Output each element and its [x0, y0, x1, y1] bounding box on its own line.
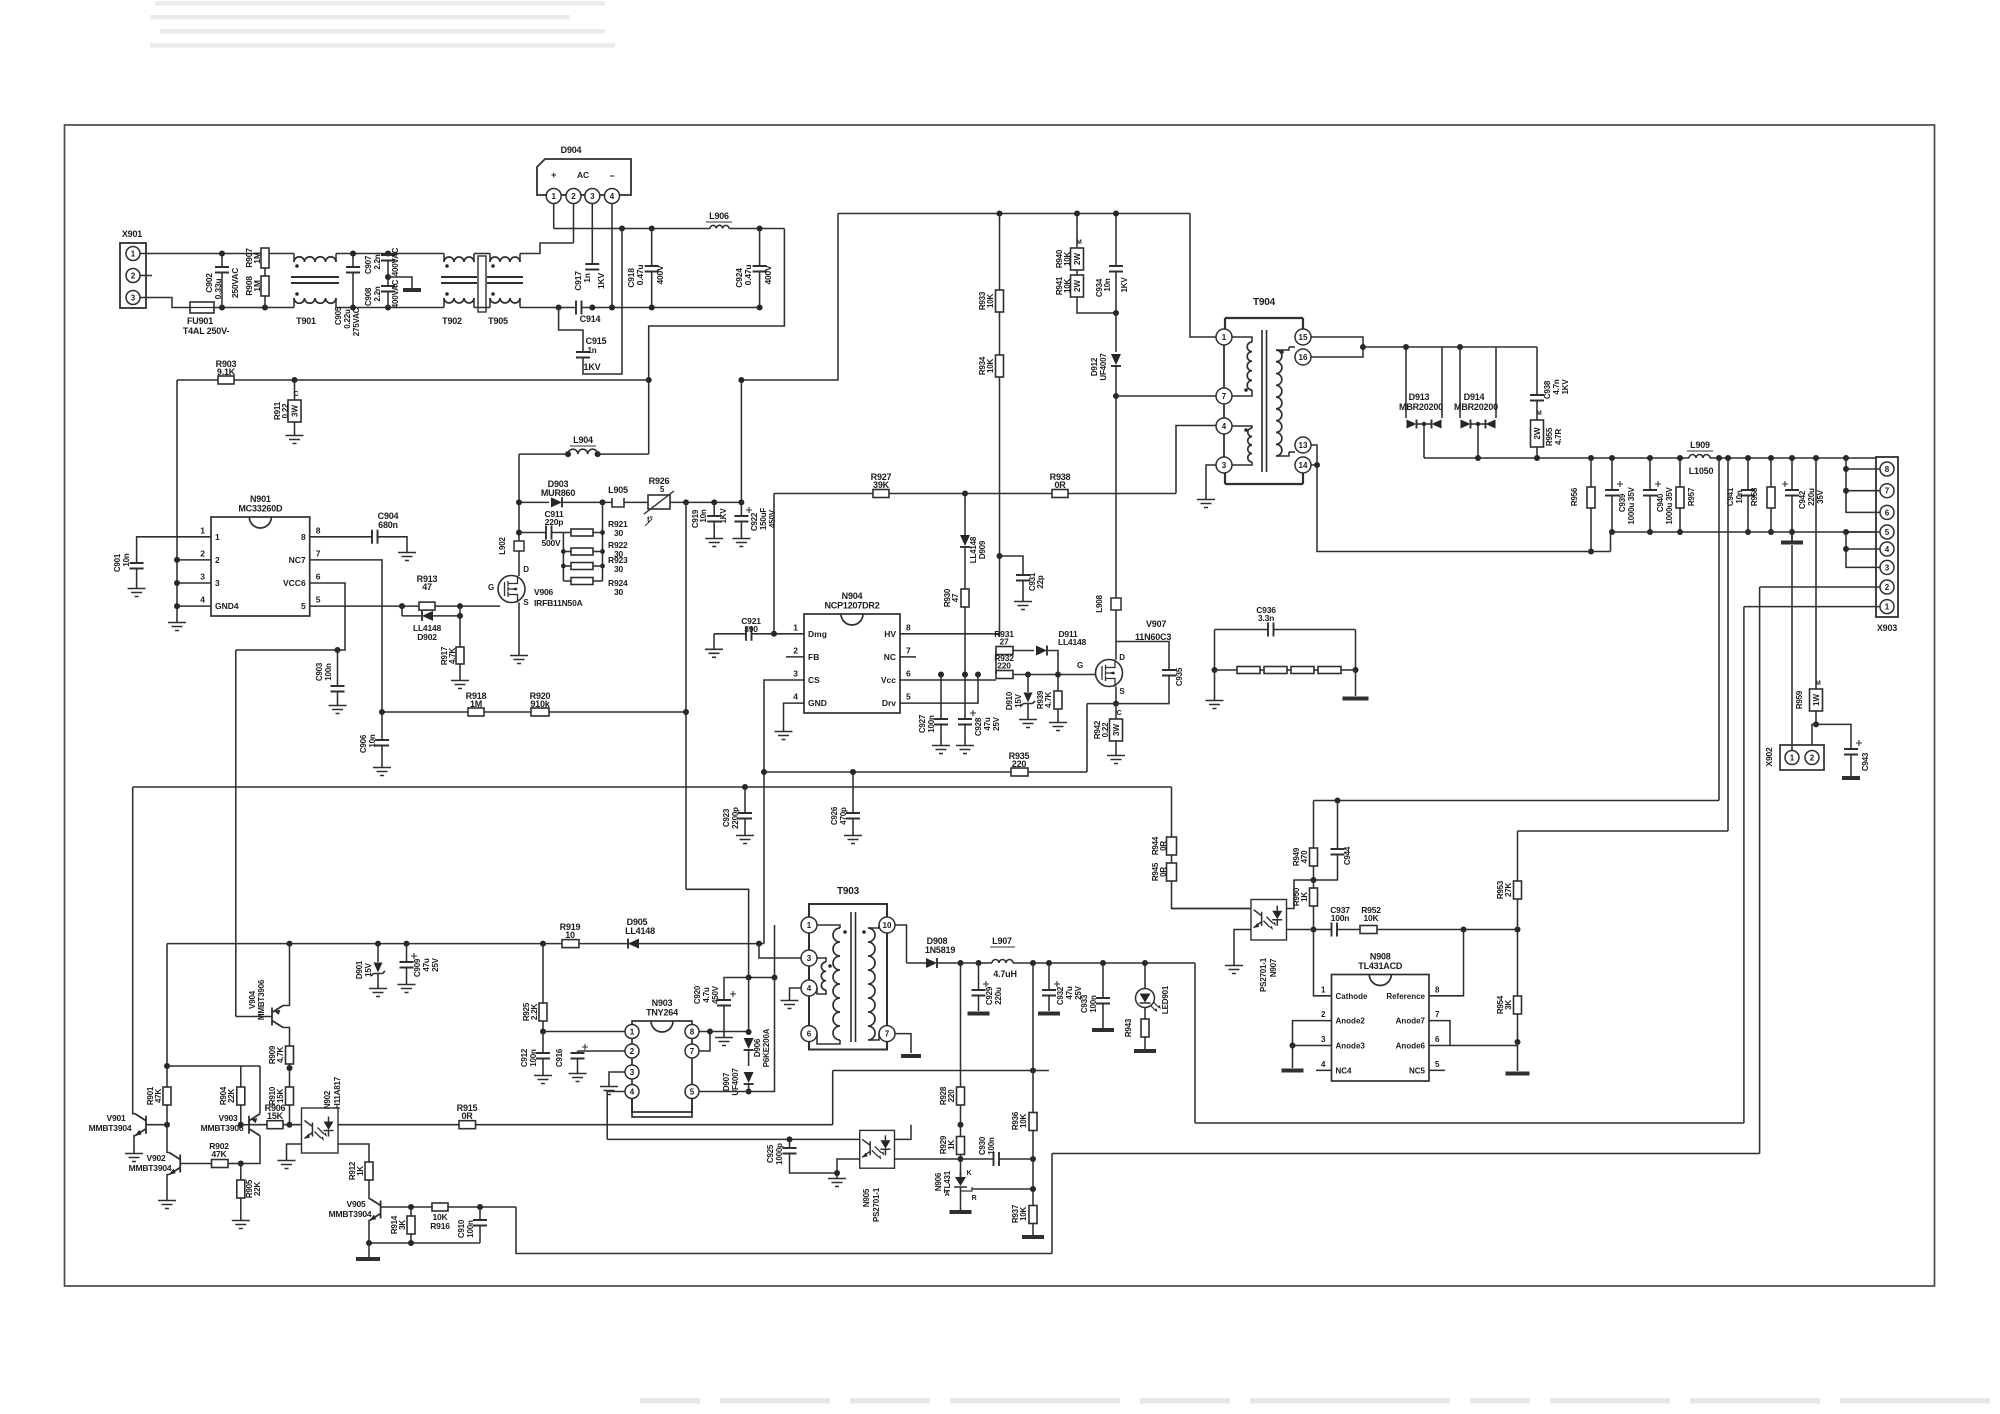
svg-text:MC33260D: MC33260D: [238, 504, 283, 514]
wire R911 bottom lead: [294, 422, 296, 432]
wire C931 tap: [1000, 556, 1024, 575]
ground C926: [844, 832, 862, 844]
capacitor C925: [783, 1148, 797, 1154]
junction HV node: [683, 499, 689, 505]
svg-text:MMBT3906: MMBT3906: [257, 979, 266, 1020]
junction C925 ground: [834, 1170, 840, 1176]
wire C944 top: [1337, 801, 1339, 850]
resistor R926 thermistor: [648, 495, 670, 509]
X903 pin 4: [1880, 542, 1894, 556]
X901 pin 1: [126, 247, 140, 261]
wire D903 to L905: [563, 501, 612, 503]
svg-text:220p: 220p: [545, 517, 564, 527]
wire: [293, 298, 295, 308]
wire R907-R908: [264, 268, 266, 276]
capacitor C915: [576, 352, 590, 358]
wire: [474, 307, 490, 309]
wire CS riser right: [1086, 704, 1088, 772]
junction C924 top: [757, 226, 763, 232]
wire C940 bottom: [1649, 496, 1651, 533]
transformer T903 primary winding: [833, 928, 840, 1040]
wire: [519, 254, 521, 263]
wire T904 sec bottom tap: [1276, 452, 1289, 456]
resistor R922: [571, 548, 593, 555]
resistor R916: [432, 1203, 448, 1211]
wire R904 top: [240, 1066, 242, 1087]
junction: [408, 1240, 414, 1246]
svg-text:D901: D901: [355, 960, 364, 979]
X903 pin 8: [1880, 462, 1894, 476]
junction damper left: [1212, 667, 1218, 673]
border frame: [65, 125, 1935, 1286]
resistor damper 1: [1237, 667, 1260, 674]
fuse FU901: [190, 302, 214, 313]
svg-text:1W: 1W: [1812, 694, 1821, 706]
wire: [593, 551, 603, 553]
ground damper left: [1206, 697, 1224, 709]
wire N905 to line: [895, 1125, 912, 1140]
svg-text:6: 6: [316, 572, 321, 582]
svg-text:M: M: [1815, 680, 1820, 687]
resistor R936: [1029, 1113, 1037, 1131]
capacitor C918: [645, 266, 659, 272]
svg-text:R943: R943: [1124, 1018, 1133, 1037]
junction drain node: [746, 1089, 752, 1095]
svg-text:4.7R: 4.7R: [1554, 429, 1563, 446]
capacitor C930: [994, 1152, 1000, 1166]
wire R954 top: [1517, 930, 1519, 997]
svg-text:C930: C930: [978, 1136, 987, 1155]
junction D906 top: [746, 1029, 752, 1035]
wire R905 bottom: [240, 1198, 242, 1217]
capacitor C909: [400, 962, 414, 968]
wire bulk plus staircase: [649, 229, 785, 455]
wire C921 ground leg: [713, 634, 715, 646]
wire C938 top: [1536, 347, 1538, 395]
wire V903 collector down: [241, 1136, 260, 1164]
wire gate line to V906: [435, 605, 500, 607]
svg-text:C910: C910: [457, 1219, 466, 1238]
junction: [1725, 455, 1731, 461]
svg-text:HV: HV: [884, 629, 896, 639]
wire L904 line left: [519, 453, 568, 455]
svg-text:Reference: Reference: [1386, 992, 1425, 1001]
capacitor C941: [1741, 490, 1755, 496]
svg-text:GND4: GND4: [215, 601, 239, 611]
wire C931 bottom: [1022, 581, 1024, 599]
svg-text:4: 4: [630, 1087, 635, 1096]
wire V903 base link: [241, 1124, 249, 1126]
wire NC5 stub: [1429, 1069, 1445, 1071]
junction: [609, 305, 615, 311]
transformer T903 box: [809, 904, 887, 1050]
svg-text:680n: 680n: [378, 520, 398, 530]
wire C921 left: [714, 633, 746, 635]
svg-text:R957: R957: [1687, 487, 1696, 506]
junction C928: [962, 672, 968, 678]
wire D906-D907: [748, 1050, 750, 1066]
svg-text:5: 5: [906, 692, 911, 702]
svg-text:47: 47: [951, 593, 960, 602]
svg-text:H11A817: H11A817: [333, 1076, 342, 1109]
svg-text:2.2K: 2.2K: [530, 1004, 539, 1021]
wire T903 aux top: [817, 958, 826, 962]
wire R928 riser: [960, 963, 962, 1087]
svg-text:R916: R916: [430, 1221, 450, 1231]
wire: [563, 532, 571, 534]
resistor R928: [957, 1087, 965, 1105]
wire C903 top: [337, 650, 339, 686]
wire R949 bottom: [1313, 866, 1315, 880]
resistor R957: [1676, 487, 1684, 508]
svg-text:27: 27: [999, 637, 1009, 647]
T904 winding dot: [1244, 428, 1248, 432]
wire to T904 pin7: [1116, 395, 1216, 397]
wire: [1287, 669, 1291, 671]
wire R931 left riser: [995, 651, 997, 675]
wire secondary top line: [1363, 346, 1537, 348]
svg-text:1: 1: [1790, 753, 1795, 762]
ground C921: [705, 646, 723, 658]
svg-text:0.22: 0.22: [1101, 722, 1110, 738]
wire R944-R945: [1171, 855, 1173, 863]
junction D913 center: [1422, 422, 1426, 426]
svg-text:C927: C927: [918, 714, 927, 733]
wire reference to FB node: [1429, 930, 1464, 996]
wire N906 to ground: [960, 1196, 962, 1210]
wire startup riser x177: [176, 380, 178, 619]
wire pin8 node to D906 chain: [710, 1031, 749, 1033]
svg-text:1KV: 1KV: [719, 508, 728, 524]
svg-text:14: 14: [1299, 461, 1308, 470]
N903 pin 3: [625, 1065, 639, 1079]
svg-text:10K: 10K: [986, 359, 995, 373]
wire C921 to pin1: [752, 633, 805, 635]
wire N903 pin4-5 loop: [632, 1099, 692, 1113]
wire C933 bottom: [1102, 1004, 1104, 1029]
wire C906 bottom: [381, 746, 383, 765]
svg-text:C903: C903: [315, 662, 324, 681]
wire R958 top: [1770, 458, 1772, 487]
wire damper right leg: [1355, 630, 1357, 671]
svg-text:C943: C943: [1861, 752, 1870, 771]
svg-text:C920: C920: [693, 985, 702, 1004]
wire V905 collector to R912: [368, 1180, 371, 1199]
wire N901 pin2 stub: [177, 559, 211, 561]
junction C903 tap: [335, 647, 341, 653]
svg-text:V901: V901: [106, 1113, 126, 1123]
svg-text:4: 4: [1222, 422, 1227, 431]
svg-text:2.2n: 2.2n: [373, 254, 382, 270]
resistor R930: [961, 589, 969, 607]
ground R942: [1107, 752, 1125, 764]
wire D904 pin2 down: [573, 204, 575, 244]
resistor R924: [571, 578, 593, 585]
svg-text:D: D: [523, 565, 529, 574]
junction C909: [404, 941, 410, 947]
ground N905: [828, 1175, 846, 1187]
wire C934 top: [1115, 214, 1117, 267]
svg-text:V903: V903: [218, 1113, 238, 1123]
svg-text:4: 4: [1321, 1060, 1326, 1069]
wire R933-R934: [999, 312, 1001, 355]
wire lower rail: [375, 307, 444, 309]
capacitor C944: [1331, 849, 1345, 855]
svg-text:Cathode: Cathode: [1336, 992, 1369, 1001]
junction: [350, 305, 356, 311]
svg-text:C923: C923: [722, 808, 731, 827]
N903 pin 1: [625, 1025, 639, 1039]
wire feedback line y712: [382, 711, 686, 713]
ground C903: [329, 702, 347, 714]
wire X903 pin4 ground: [1846, 548, 1880, 550]
wire T903 sec top: [868, 925, 879, 928]
svg-text:0.47u: 0.47u: [635, 265, 645, 286]
svg-text:LED901: LED901: [1161, 985, 1170, 1014]
wire C901 bottom: [136, 569, 138, 586]
T904 pin 14: [1295, 457, 1311, 473]
svg-text:C932: C932: [1056, 986, 1065, 1005]
svg-text:7: 7: [1435, 1010, 1440, 1019]
svg-text:39K: 39K: [873, 480, 890, 490]
wire R936 riser: [1032, 963, 1034, 1113]
wire: [907, 962, 927, 964]
svg-text:D906: D906: [753, 1038, 762, 1057]
svg-text:47K: 47K: [212, 1149, 228, 1159]
wire L905 to R926: [624, 501, 648, 503]
svg-text:8: 8: [301, 532, 306, 542]
svg-text:9.1K: 9.1K: [217, 367, 236, 377]
wire R941 bottom to C934 node: [1077, 297, 1116, 313]
svg-text:6: 6: [906, 669, 911, 679]
wire C925 bottom: [790, 1154, 838, 1174]
svg-text:Anode6: Anode6: [1396, 1042, 1426, 1051]
wire output rail: [1424, 457, 1689, 459]
wire T905 to bridge AC1: [520, 243, 574, 254]
svg-text:0.47u: 0.47u: [743, 265, 753, 286]
svg-text:PS2701-1: PS2701-1: [872, 1187, 881, 1222]
resistor R906: [267, 1121, 283, 1129]
wire T904 prim1 top: [1232, 337, 1252, 342]
wire T904 sec top tap: [1276, 347, 1289, 350]
svg-text:L902: L902: [498, 537, 507, 555]
svg-text:7: 7: [1222, 392, 1227, 401]
wire D909 top lead: [964, 494, 966, 536]
svg-text:3: 3: [590, 192, 595, 201]
wire CS sense line y772: [764, 771, 1087, 773]
resistor R942: [1110, 719, 1123, 741]
svg-text:N901: N901: [250, 494, 271, 504]
wire R928 bottom: [960, 1105, 962, 1125]
wire: [387, 254, 389, 256]
svg-text:T903: T903: [837, 886, 860, 897]
junction: [1843, 455, 1849, 461]
svg-text:MBR20200: MBR20200: [1399, 402, 1443, 412]
svg-text:10K: 10K: [1019, 1207, 1028, 1221]
svg-text:4: 4: [1885, 545, 1890, 554]
svg-text:2: 2: [200, 548, 205, 558]
svg-text:4.7K: 4.7K: [1044, 692, 1053, 709]
ground C931: [1014, 598, 1032, 610]
junction L904 right: [595, 451, 601, 457]
junction V904 chain: [287, 941, 293, 947]
wire: [1260, 669, 1264, 671]
wire R950 bottom: [1313, 906, 1315, 930]
resistor R954: [1514, 996, 1522, 1014]
resistor R917: [456, 647, 464, 664]
wire: [402, 615, 421, 617]
svg-text:470: 470: [1300, 850, 1309, 863]
capacitor C922: [734, 516, 748, 522]
T903 pin 3: [801, 950, 817, 966]
svg-text:100n: 100n: [466, 1220, 475, 1238]
transistor Q V907 MOSFET: [1096, 660, 1123, 687]
T904 pin 1: [1216, 329, 1232, 345]
ground C912: [534, 1072, 552, 1084]
svg-text:15: 15: [1299, 333, 1308, 342]
svg-text:2W: 2W: [1073, 253, 1082, 265]
wire D909 to R930: [964, 547, 966, 589]
resistor R943: [1141, 1019, 1149, 1037]
svg-text:1M: 1M: [252, 280, 262, 292]
ground R911: [286, 432, 304, 444]
wire N901 VCC6 line: [236, 583, 345, 650]
wire lower bus: [582, 307, 760, 309]
svg-text:−: −: [609, 171, 614, 181]
junction C910 top: [477, 1204, 483, 1210]
junction R936/R937: [1030, 1156, 1036, 1162]
junction C919: [711, 499, 717, 505]
junction R936 riser: [1030, 1068, 1036, 1074]
wire T903 prim bottom: [817, 1034, 840, 1044]
wire: [443, 298, 445, 308]
svg-text:6: 6: [1885, 508, 1890, 517]
resistor R956: [1587, 487, 1595, 508]
ground C904: [398, 549, 416, 561]
wire lower bus: [559, 307, 576, 309]
svg-text:0R: 0R: [1159, 867, 1168, 877]
junction: [219, 251, 225, 257]
svg-text:LL4148: LL4148: [1058, 637, 1087, 647]
svg-text:1N5819: 1N5819: [925, 945, 956, 955]
inductor L906: [710, 225, 729, 228]
junction C943: [1813, 721, 1819, 727]
resistor R912: [365, 1162, 373, 1180]
junction R907 top: [262, 251, 268, 257]
wire R925 top: [542, 944, 544, 1003]
wire ladder left rail: [562, 533, 564, 582]
ground N901: [168, 619, 186, 631]
junction: [589, 305, 595, 311]
svg-text:3K: 3K: [398, 1220, 407, 1230]
svg-text:0R: 0R: [1054, 480, 1066, 490]
capacitor C928: [958, 719, 972, 725]
svg-text:2: 2: [571, 192, 576, 201]
T905 winding dot: [491, 292, 495, 296]
wire N901 pin3 stub: [177, 582, 211, 584]
capacitor C933: [1096, 998, 1110, 1004]
wire T905 to lower bus: [520, 307, 559, 309]
svg-text:2W: 2W: [1533, 427, 1542, 439]
wire: [563, 580, 571, 582]
ground R939: [1049, 719, 1067, 731]
wire rail drop x1719: [1718, 458, 1720, 801]
wire to ground: [1517, 1042, 1519, 1071]
wire R942 bottom: [1115, 741, 1117, 752]
T904 pin 13: [1295, 437, 1311, 453]
resistor R949: [1310, 848, 1318, 866]
junction: [1789, 529, 1795, 535]
wire N903 pin3 stub: [609, 1072, 625, 1083]
svg-text:L1050: L1050: [1689, 466, 1714, 476]
svg-text:UF4007: UF4007: [1099, 353, 1108, 381]
wire aux staircase: [686, 889, 749, 1032]
wire damper right ground: [1355, 670, 1357, 696]
diode D908 1N5819: [926, 958, 937, 968]
wire N901 pin7 riser: [310, 560, 382, 712]
svg-text:100n: 100n: [927, 715, 936, 733]
resistor R935: [1011, 768, 1028, 776]
transformer T903 secondary winding: [868, 928, 875, 1040]
svg-text:450V: 450V: [768, 509, 777, 528]
svg-text:N903: N903: [652, 998, 673, 1008]
svg-text:0R: 0R: [461, 1111, 473, 1121]
junction R902/R905: [238, 1161, 244, 1167]
transformer T905 upper winding: [490, 257, 520, 262]
resistor R940: [1071, 248, 1084, 270]
inductor L907: [992, 960, 1013, 963]
wire V902 emitter: [167, 1175, 169, 1198]
svg-text:2: 2: [131, 271, 136, 280]
wire R916 to corner: [448, 1206, 516, 1208]
wire R909-R910: [289, 1064, 291, 1087]
svg-text:35V: 35V: [1816, 489, 1825, 503]
wire Dmg riser x774: [773, 494, 775, 634]
connector X903: [1876, 457, 1898, 617]
junction D903 anode: [516, 499, 522, 505]
wire C905 bottom: [352, 273, 354, 308]
svg-text:C938: C938: [1543, 380, 1552, 399]
ground V902: [158, 1197, 176, 1209]
resistor R934: [996, 355, 1004, 377]
svg-text:3: 3: [807, 954, 812, 963]
resistor R932: [996, 671, 1013, 679]
wire V906 drain lead: [518, 551, 520, 576]
svg-text:D: D: [1119, 653, 1125, 662]
svg-text:2200p: 2200p: [731, 807, 740, 829]
transformer T901 core: [291, 277, 339, 283]
wire C938 to R955: [1536, 401, 1538, 421]
svg-text:4.7K: 4.7K: [448, 648, 457, 665]
resistor R929: [957, 1137, 965, 1155]
svg-text:C912: C912: [520, 1048, 529, 1067]
junction reference: [1461, 927, 1467, 933]
resistor R921: [571, 529, 593, 536]
resistor damper 4: [1318, 667, 1341, 674]
wire lower rail: [265, 307, 294, 309]
junction C927: [938, 672, 944, 678]
junction D909 top: [962, 491, 968, 497]
junction D913: [1403, 344, 1409, 350]
wire T903 aux bottom: [817, 988, 826, 994]
svg-text:3W: 3W: [291, 405, 300, 417]
svg-text:1000u 35V: 1000u 35V: [1627, 486, 1636, 524]
diode D909 LL4148: [960, 535, 970, 546]
svg-text:1KV: 1KV: [1561, 379, 1570, 395]
wire L908 to V907 drain: [1115, 610, 1117, 660]
wire C910 top: [479, 1207, 481, 1220]
wire to T903 pin3: [759, 944, 801, 958]
